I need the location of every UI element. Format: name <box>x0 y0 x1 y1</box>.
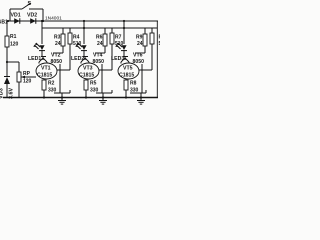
wire LED to VT6 <box>123 50 125 57</box>
wire R4 to VT1 base <box>69 44 71 70</box>
wire bottom ground rail <box>3 97 158 99</box>
svg-text:R8: R8 <box>130 81 137 87</box>
svg-text:R4: R4 <box>73 35 80 41</box>
svg-text:VD3: VD3 <box>0 88 5 99</box>
resistor R5 330 <box>84 80 88 90</box>
zener diode VD3 3.6V <box>4 76 10 78</box>
wire R7 to VT3 base <box>111 44 113 70</box>
wire left rail upper <box>6 21 8 36</box>
resistor R8 330 <box>124 80 128 90</box>
switch S <box>10 8 22 10</box>
wire node B to RP <box>7 61 19 63</box>
node A (battery junction) <box>7 20 9 22</box>
wire R9 to VT6 base <box>144 46 146 53</box>
wire VT1 emitter to R2 <box>43 79 45 81</box>
potentiometer RP <box>18 62 20 72</box>
resistor R4 510 <box>69 28 71 33</box>
transistor VT3 C1815 <box>78 63 99 79</box>
wire top supply rail <box>43 20 158 22</box>
svg-text:R9: R9 <box>136 35 143 41</box>
transistor VT5 C1815 <box>118 63 139 79</box>
node B <box>6 61 8 63</box>
ground <box>102 98 104 101</box>
svg-text:R2: R2 <box>48 81 55 87</box>
svg-text:S: S <box>28 1 32 7</box>
diode VD1 <box>14 18 20 24</box>
wire VT1 collector loop <box>59 64 61 93</box>
wire right edge rail <box>156 21 158 97</box>
wire LED3 column from rail <box>123 21 125 44</box>
wire VT5 collector loop <box>141 64 143 93</box>
svg-text:C1815: C1815 <box>37 73 52 79</box>
wire R3 to VT2 base <box>62 46 64 53</box>
wire R2 to ground rail <box>43 90 45 97</box>
resistor R3 24 <box>62 28 64 34</box>
svg-text:R6: R6 <box>96 35 103 41</box>
svg-text:510: 510 <box>159 41 161 47</box>
svg-text:R10: R10 <box>159 35 161 41</box>
LED LED1 <box>39 45 44 50</box>
wire left rail mid <box>6 47 8 77</box>
svg-text:24: 24 <box>55 41 61 47</box>
wire VT3 collector loop <box>101 64 103 93</box>
wire switch-branch right <box>42 9 44 21</box>
wire R5 to ground rail <box>85 90 87 97</box>
wire LED1 column from rail <box>41 21 43 44</box>
wire LED to VT4 <box>83 50 85 57</box>
resistor R7 510 <box>111 28 113 33</box>
resistor R9 24 <box>144 28 146 34</box>
svg-text:24: 24 <box>137 41 143 47</box>
wire diode branch <box>7 20 43 22</box>
ground <box>61 98 63 101</box>
svg-text:R3: R3 <box>54 35 61 41</box>
resistor R1 <box>5 36 9 47</box>
wire left rail lower <box>6 84 8 97</box>
svg-text:1N4001: 1N4001 <box>45 15 62 21</box>
wiper arrow of RP <box>22 76 37 78</box>
ground <box>140 98 142 101</box>
svg-text:120: 120 <box>10 42 19 48</box>
LED LED3 <box>121 45 126 50</box>
transistor VT2 8050 <box>41 56 46 58</box>
svg-text:VD2: VD2 <box>27 13 37 19</box>
wire switch-branch left <box>9 9 11 21</box>
svg-text:VD1: VD1 <box>11 13 21 19</box>
svg-text:VT5: VT5 <box>123 66 133 72</box>
svg-text:VT3: VT3 <box>83 66 93 72</box>
transistor VT4 8050 <box>83 56 88 58</box>
wire R6 to VT4 base <box>104 46 106 53</box>
svg-text:C1815: C1815 <box>79 73 94 79</box>
svg-text:C1815: C1815 <box>119 73 134 79</box>
resistor R10 510 <box>151 28 153 33</box>
svg-text:R1: R1 <box>10 34 17 40</box>
svg-text:3.6V: 3.6V <box>9 88 15 99</box>
svg-text:VT1: VT1 <box>41 66 51 72</box>
wire second supply rail <box>42 27 157 29</box>
wire VT3 emitter to R5 <box>85 79 87 81</box>
resistor R6 24 <box>104 28 106 34</box>
transistor VT6 8050 <box>123 56 128 58</box>
svg-text:R5: R5 <box>90 81 97 87</box>
wire R10 to VT5 base <box>151 44 153 70</box>
wire VT5 emitter to R8 <box>125 79 127 81</box>
resistor R2 330 <box>42 80 46 90</box>
wire R8 to ground rail <box>125 90 127 97</box>
diode VD2 <box>30 18 36 24</box>
svg-text:120: 120 <box>23 79 32 85</box>
wire LED2 column from rail <box>83 21 85 44</box>
svg-text:R7: R7 <box>115 35 122 41</box>
transistor VT1 C1815 <box>36 63 57 79</box>
wire LED to VT2 <box>41 50 43 57</box>
LED LED2 <box>81 45 86 50</box>
svg-text:24: 24 <box>97 41 103 47</box>
